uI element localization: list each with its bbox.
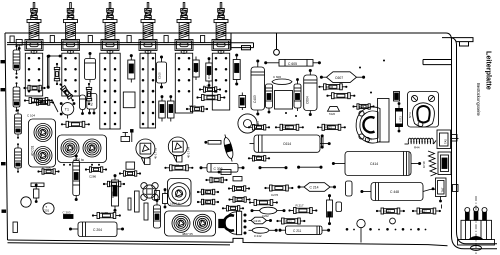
svg-text:Bestückungsseite: Bestückungsseite: [476, 83, 481, 116]
edge stub 2: [1, 88, 6, 91]
connector knob below: [471, 246, 482, 251]
flat bar part right of Q6: [205, 141, 221, 145]
capacitor C268 big: [0, 0, 1, 1]
svg-text:201: 201: [44, 209, 49, 213]
capacitor C605: [265, 60, 321, 67]
svg-text:C604: C604: [306, 96, 310, 104]
resistor C276 chain: [264, 185, 293, 191]
resistor C285: [92, 213, 121, 219]
svg-text:R40: R40: [207, 73, 211, 79]
svg-text:C 203: C 203: [63, 211, 71, 215]
svg-text:1R5: 1R5: [359, 105, 365, 109]
svg-text:C216: C216: [254, 219, 262, 223]
wire link W3: [298, 166, 323, 168]
capacitor C306: [200, 164, 244, 173]
resistor R26 small vertical: [163, 189, 168, 208]
wire link W2: [259, 167, 287, 169]
part bottom-left vertical: [13, 222, 17, 233]
rail spacer posts: [10, 36, 205, 43]
svg-text:C110: C110: [189, 104, 196, 108]
coil spring R44: [405, 138, 437, 144]
svg-text:TA20: TA20: [329, 112, 336, 116]
stray pad 2: [370, 92, 372, 94]
coil L5 body: [175, 53, 192, 113]
svg-text:C 606: C 606: [273, 75, 281, 79]
capacitor C216 hexagonal small: [249, 217, 272, 224]
capacitor C309 diagonal lens: [222, 134, 236, 163]
svg-text:R315: R315: [283, 126, 290, 130]
svg-text:C286: C286: [89, 175, 97, 179]
rail bracket flange: [242, 46, 251, 50]
capacitor C204 big: [69, 222, 123, 237]
capacitor C414 big: [332, 152, 420, 176]
svg-text:R444: R444: [384, 209, 391, 213]
resistor R110 vertical right of L6: [233, 54, 240, 85]
svg-text:TA7: TA7: [441, 187, 445, 192]
coil L6 body: [212, 53, 229, 110]
connector pin 1: [465, 208, 470, 221]
right edge outer line: [452, 40, 498, 249]
capacitor C614 big horizontal: [250, 135, 331, 152]
hanging wire blob: [274, 49, 280, 55]
resistor R271: [228, 197, 250, 202]
svg-text:40-17-04: 40-17-04: [187, 146, 191, 158]
svg-text:R306: R306: [327, 85, 334, 89]
part C273 small: [233, 177, 242, 181]
capacitor C110 horizontal small: [186, 106, 208, 111]
stray pad 1: [359, 67, 361, 69]
svg-text:C 214: C 214: [310, 186, 319, 190]
trimmer clover TR1: [141, 183, 158, 201]
connector pin 2: [474, 207, 479, 221]
capacitor C448 big: [361, 183, 430, 201]
coil filter L6: [212, 3, 230, 54]
resistor R102 (left column): [15, 143, 22, 173]
test point TP1: [327, 195, 333, 225]
resistor R232: [164, 165, 193, 171]
transistor Q9 D-package: [219, 211, 246, 234]
resistor NT3b vertical: [396, 103, 403, 133]
resistor R21 small vertical: [34, 184, 39, 203]
svg-text:40 C01: 40 C01: [31, 145, 35, 156]
capacitor C211: [279, 226, 330, 234]
svg-text:1P18: 1P18: [422, 161, 426, 168]
node under C101: [15, 76, 17, 78]
transistor T1: [60, 103, 75, 119]
trimmer D-cap body: [356, 107, 380, 143]
edge clip: [453, 185, 459, 192]
capacitor C214 hexagonal: [298, 183, 336, 192]
rail bracket arm: [231, 43, 254, 48]
svg-text:C 605: C 605: [288, 62, 297, 66]
transistor Q4 in U2: [83, 139, 101, 157]
resistor R32 vertical: [239, 93, 246, 111]
resistor R43 vertical between L5 L6: [193, 57, 199, 81]
svg-text:C403: C403: [253, 95, 257, 103]
coil L3 body: [100, 53, 120, 129]
resistor R217: [288, 208, 317, 214]
capacitor C409: [248, 156, 270, 161]
terminal TA5: [437, 130, 459, 149]
resistor chain R111: [61, 121, 90, 127]
svg-text:NT3: NT3: [408, 112, 412, 118]
resistor R103 vertical: [54, 63, 59, 85]
screw S1: [411, 95, 417, 101]
svg-text:C607: C607: [335, 76, 343, 80]
stray pad 4: [285, 112, 287, 114]
resistor C212 chain: [276, 218, 305, 224]
resistor R431 vertical tall: [159, 96, 165, 122]
capacitor C108 flat with stem: [121, 133, 130, 142]
capacitor C606 lens: [272, 75, 292, 85]
corner part top-left: [16, 40, 22, 50]
hanging wire: [276, 33, 278, 50]
resistor R401 vertical ringed: [266, 84, 273, 113]
trimmer module NT3 plate: [408, 92, 439, 128]
resistor C286 horizontal: [85, 167, 107, 172]
coil L4 body: [140, 53, 156, 128]
spacer box between L3 L4: [123, 92, 135, 108]
transistor Q3 in U2: [61, 139, 79, 157]
svg-text:4800 ta: 4800 ta: [73, 158, 84, 162]
trimmer D-cap plate: [378, 99, 390, 143]
svg-text:4807 05: 4807 05: [182, 232, 193, 236]
trimmer horseshoe: [413, 103, 435, 127]
thin bar parts left of module: [128, 191, 139, 212]
spacer bar right-center: [346, 181, 353, 196]
resistor R108 vertical (value box) between L3 L4: [128, 55, 135, 83]
capacitor C101 (left column electrolytic): [13, 45, 20, 75]
resistor R25 vertical ringed: [154, 191, 161, 229]
connector body: [461, 220, 492, 239]
capacitor C202 lens: [251, 207, 285, 218]
svg-text:C276: C276: [271, 193, 279, 197]
svg-text:R4?: R4?: [203, 200, 209, 204]
svg-text:R303: R303: [325, 126, 332, 130]
resistor R272 above D-transistor: [222, 206, 244, 211]
svg-text:C409: C409: [253, 154, 261, 158]
wire link W5 small: [48, 55, 61, 57]
bottom edge line with tab: [8, 238, 448, 245]
svg-text:7L4: 7L4: [367, 138, 372, 142]
tick at R437 right: [441, 205, 443, 209]
coil filter L2: [62, 3, 80, 54]
svg-text:C 306: C 306: [214, 167, 223, 171]
svg-text:LB06 4: LB06 4: [170, 201, 180, 205]
resistor R270: [228, 186, 250, 191]
resistor chain R109: [196, 95, 225, 101]
rail end vertical: [230, 33, 232, 50]
svg-text:C 16: C 16: [203, 85, 209, 89]
capacitor C105 between L4 L5: [157, 56, 167, 88]
part C272 small: [218, 170, 231, 175]
svg-text:R43: R43: [203, 190, 209, 194]
svg-text:R437: R437: [420, 209, 427, 213]
svg-text:R44: R44: [414, 146, 420, 150]
coil filter L3: [101, 3, 119, 54]
resistor R316: [248, 125, 270, 130]
hole ring: [390, 218, 396, 224]
flag tab of Q5: [142, 158, 151, 165]
IC module U2 horizontal (two transistors): [58, 135, 107, 163]
IC module U1 vertical (two transistors): [29, 119, 56, 167]
coil filter L4: [139, 3, 157, 54]
resistor R43b: [197, 189, 219, 194]
small box part: [126, 162, 135, 169]
resistor C305: [205, 177, 227, 182]
transistor Q7 in U4: [172, 214, 190, 232]
pins under U2: [63, 164, 100, 166]
transistor T201: [43, 203, 54, 214]
resistor R104 diagonal: [58, 82, 76, 103]
transistor Q1 in U1: [34, 124, 52, 142]
terminal TA6: [438, 152, 451, 175]
connector base plate: [458, 240, 495, 246]
svg-text:R232: R232: [172, 163, 180, 167]
resistor R437: [412, 208, 441, 214]
connector pin 3: [482, 208, 487, 221]
washer ring R33: [238, 114, 257, 133]
resistor R307: [326, 93, 355, 99]
svg-text:C614: C614: [283, 142, 291, 146]
terminal TA7: [430, 178, 446, 202]
svg-text:C105: C105: [157, 72, 161, 79]
resistor R402 vertical ringed: [294, 79, 301, 112]
capacitor C206 horizontal: [37, 169, 59, 174]
edge stub 4: [2, 210, 7, 213]
flag tab of Q6: [174, 156, 183, 163]
solder pin with ring: [357, 219, 365, 242]
coil L2 body: [62, 53, 79, 96]
top-right edge tab upper: [452, 38, 474, 42]
board outline top edge: [5, 33, 452, 40]
svg-text:C414: C414: [370, 162, 378, 166]
resistor R107 vertical below C103: [86, 83, 91, 105]
transistor Q6 with square pad: [168, 137, 187, 156]
test pads row: [346, 228, 427, 231]
capacitor C203 small: [63, 211, 74, 219]
coil mounting rail: [7, 43, 231, 45]
stray pad 5: [295, 115, 297, 117]
resistor R444: [376, 208, 405, 214]
right edge bar: [423, 60, 452, 65]
top-right edge tab lower step: [460, 42, 469, 46]
white spacer bar: [144, 203, 148, 220]
connector center line: [475, 196, 477, 254]
resistor R105 horizontal: [23, 85, 45, 90]
resistor 1R5: [352, 104, 374, 109]
IC module U4 horizontal (two transistors): [165, 211, 216, 236]
capacitor C403 electrolytic: [251, 60, 265, 115]
svg-text:0 242: 0 242: [254, 234, 262, 238]
svg-text:C 448: C 448: [390, 190, 399, 194]
bottom edge second line: [8, 243, 231, 245]
svg-text:C205: C205: [111, 191, 115, 198]
svg-text:R33: R33: [256, 121, 260, 127]
resistor chain R240: [249, 200, 278, 206]
transistor Q2 in U1: [34, 147, 52, 165]
transistor Q5 with square pad: [136, 139, 155, 158]
stray pad 3: [383, 60, 385, 62]
svg-text:C285: C285: [101, 211, 109, 215]
svg-text:NT3: NT3: [398, 116, 402, 122]
resistor R20 vertical tall with rings: [73, 155, 80, 201]
resistor R23 horizontal: [103, 181, 125, 186]
spacer box right: [275, 91, 293, 110]
svg-text:C 204: C 204: [93, 228, 102, 232]
capacitor 0242 cigar: [249, 227, 278, 238]
left edge: [5, 33, 8, 240]
svg-text:TA5: TA5: [444, 139, 448, 144]
svg-text:A2: A2: [90, 102, 94, 106]
resistor R101 (left column): [15, 109, 22, 139]
resistor C205h small: [119, 171, 141, 176]
coil filter L5: [175, 3, 193, 54]
capacitor C16 horizontal: [199, 87, 221, 92]
svg-text:C212: C212: [285, 219, 292, 223]
pin P1: [131, 130, 134, 143]
resistor R44b: [197, 199, 219, 204]
edge stub 3: [1, 162, 6, 165]
dark part D1: [394, 92, 400, 102]
mounting hole: [21, 197, 31, 207]
module M1 small: [87, 94, 97, 115]
svg-text:Leiterplatte: Leiterplatte: [485, 51, 494, 90]
resistor R432 vertical tall: [168, 96, 174, 122]
right edge inner line: [457, 45, 498, 244]
coil L1 body: [25, 53, 42, 96]
capacitor C604 electrolytic: [304, 69, 317, 115]
wire link W4 vertical: [321, 135, 323, 148]
resistor R306: [318, 84, 347, 90]
wire diagonal from C104: [54, 103, 59, 112]
capacitor C607 hexagonal: [320, 72, 364, 83]
svg-text:40-17-03: 40-17-03: [154, 147, 158, 159]
screw S2: [428, 95, 434, 101]
edge pad upper: [452, 135, 458, 142]
wire link W1 between L1 and L2: [47, 55, 49, 88]
edge stub 1: [1, 60, 6, 63]
resistor C205 vertical tall: [112, 175, 119, 212]
capacitor C102 (left column electrolytic): [13, 82, 20, 112]
transistor Q8 in U4: [194, 214, 212, 232]
resistor R303: [317, 124, 346, 130]
coil spring R48 vertical: [428, 151, 437, 176]
small bar part: [31, 183, 44, 187]
spacer block: [336, 202, 342, 212]
svg-text:T1: T1: [65, 108, 69, 112]
resistor R112 vertical rounded: [80, 95, 86, 115]
IC module U3 single transistor: [168, 179, 192, 207]
pad TA20: [328, 106, 340, 116]
resistor R40 vertical: [206, 58, 212, 87]
capacitor C103 between L2 L3: [85, 52, 96, 82]
svg-text:R43: R43: [194, 67, 198, 73]
board outline inner top-right corner: [442, 38, 457, 45]
resistor chain R106: [24, 98, 53, 104]
svg-text:C 104: C 104: [27, 114, 35, 118]
svg-text:R 217: R 217: [296, 204, 304, 208]
coil filter L1: [25, 3, 43, 54]
svg-text:C 211: C 211: [293, 229, 301, 233]
resistor R315: [275, 124, 304, 130]
svg-text:C 206: C 206: [42, 167, 51, 171]
